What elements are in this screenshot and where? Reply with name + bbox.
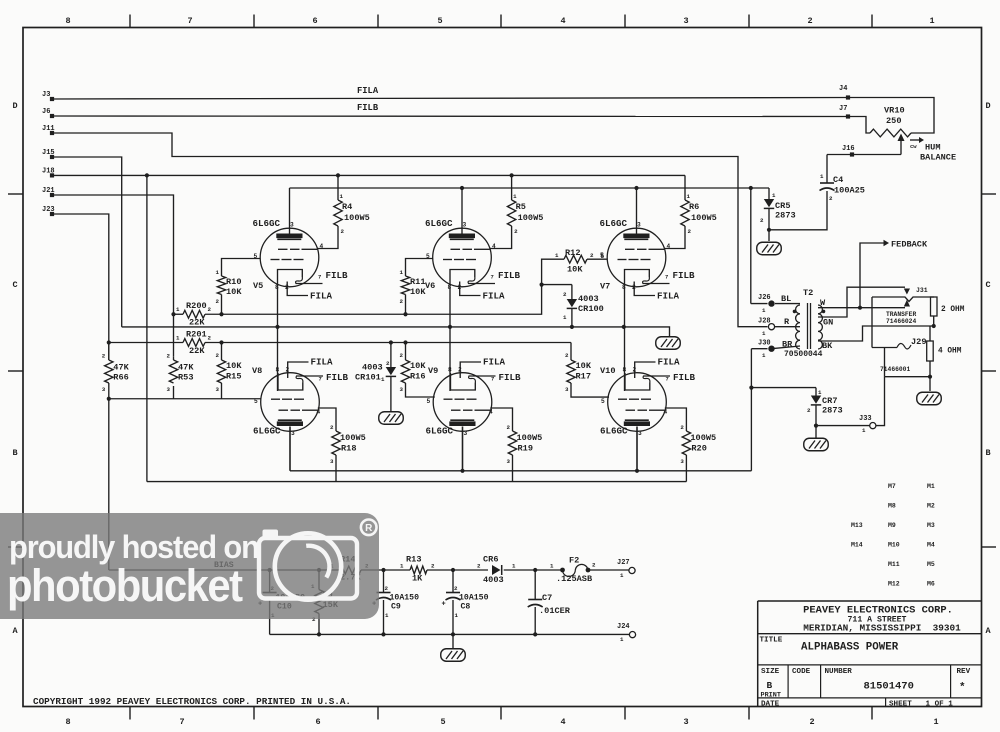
junction V10 plate	[635, 469, 639, 473]
resistor R12 10K	[587, 258, 608, 260]
capacitor C7 .01CER	[534, 570, 536, 600]
junction J18 bus / left drop	[145, 173, 149, 177]
svg-text:photobucket: photobucket	[7, 562, 243, 612]
wire V6-V9 cathode link	[449, 287, 451, 391]
wire J15 down to cathode bus	[52, 157, 122, 327]
resistor R10 10K	[222, 259, 261, 277]
resistor R11 10K	[406, 259, 434, 277]
junction R5 top	[510, 173, 514, 177]
wire to J33 branch	[885, 376, 931, 378]
ground below CR101	[379, 412, 404, 425]
junction J26 feed	[749, 186, 753, 190]
wire BL	[775, 303, 800, 305]
resistor R201 22K	[183, 339, 205, 347]
resistor 2 OHM load	[931, 297, 938, 316]
tube V10 6L6GC	[608, 373, 667, 432]
tube V5 6L6GC	[260, 228, 319, 287]
junction V6/V9 cathodes	[448, 325, 452, 329]
junction R12/CR100 node	[540, 283, 544, 287]
capacitor C9 10A150	[383, 570, 385, 593]
wire to ground	[768, 230, 770, 241]
resistor R13 1K	[410, 566, 427, 574]
tube V8 6L6GC	[261, 373, 320, 432]
resistor R14 2.7K	[340, 566, 361, 574]
junction R11 bottom	[403, 312, 407, 316]
diode CR5 2873	[768, 188, 770, 199]
wire V7-V10 cathode link	[624, 287, 626, 391]
wire R16 to V9 grid	[406, 383, 435, 397]
wire J16 to wiper	[827, 154, 901, 156]
ground cathode bus	[656, 337, 681, 350]
wire R center tap	[775, 326, 800, 328]
junction R10 bottom	[219, 312, 223, 316]
wire BK	[818, 326, 934, 341]
diode CR7 2873	[815, 388, 817, 396]
wire J23 down to R66	[52, 214, 109, 360]
wire V9 plate drop	[462, 427, 464, 471]
resistor R200 22K	[183, 310, 205, 318]
resistor R53 47K	[173, 357, 175, 360]
svg-text:proudly hosted on: proudly hosted on	[9, 528, 259, 565]
resistor R9 15K	[318, 570, 320, 590]
frame tick marks top/bottom	[129, 15, 131, 28]
resistor R18 100W5	[318, 408, 336, 431]
junction CR7 tap	[749, 386, 753, 390]
junction R4 top	[336, 173, 340, 177]
wire R17 to V10 grid	[571, 383, 609, 397]
wire bottom screen bus	[147, 481, 687, 483]
potentiometer VR10 250 hum balance	[848, 98, 934, 134]
wire cathode bus (J15)	[122, 327, 670, 337]
wire J21 down to R53	[52, 195, 174, 357]
wire GN tap	[818, 287, 905, 317]
ground below CR7	[804, 438, 829, 451]
resistor R15 10K	[221, 343, 223, 361]
wire V5-V8 cathode link	[277, 287, 279, 391]
transfer link	[872, 297, 934, 302]
resistor R5 100W5	[511, 175, 513, 200]
wire V6 plate drop	[461, 188, 463, 234]
wire V5 plate drop	[289, 188, 291, 234]
tube V7 6L6GC	[607, 228, 666, 287]
resistor R4 100W5	[337, 175, 339, 200]
title block	[758, 600, 982, 602]
junction V5/V8 cathodes	[275, 325, 279, 329]
ground below C8	[452, 634, 454, 648]
wire to ground	[929, 377, 931, 391]
wire W to fedback/transfer	[818, 307, 905, 309]
wire BIAS line	[109, 569, 340, 571]
resistor R16 10K	[405, 343, 407, 361]
frame side ticks	[8, 193, 23, 195]
resistor 4 OHM load	[929, 326, 931, 341]
resistor R19 100W5	[490, 408, 512, 431]
junction feedback tap	[858, 306, 862, 310]
junction V7 plate	[634, 186, 638, 190]
wire FILA bus J3 to J4	[52, 98, 848, 100]
tube V9 6L6GC	[433, 373, 492, 432]
junction C10	[268, 568, 272, 572]
wire plate supply bus (top tubes)	[290, 187, 770, 189]
junction V6 plate	[460, 186, 464, 190]
junction CR7 bottom	[814, 424, 818, 428]
junction CR5/C4/ground	[767, 228, 771, 232]
junction CR101 top	[389, 340, 393, 344]
wire to CR100	[542, 284, 572, 286]
wire FILB bus J6 to J7	[52, 115, 848, 118]
wire to CR7	[751, 387, 816, 389]
phase dot primary	[793, 310, 797, 314]
junction R9	[317, 568, 321, 572]
junction V9 plate	[460, 469, 464, 473]
resistor R66 47K	[108, 343, 110, 361]
connector J33	[816, 425, 870, 427]
diode CR6 4003	[492, 565, 501, 575]
wire J11 to J28 center tap	[52, 133, 768, 327]
wire V8 plate drop	[289, 427, 291, 471]
junction CR100 return	[570, 325, 574, 329]
wire BR	[772, 346, 801, 349]
registered trademark symbol	[361, 520, 377, 536]
photobucket camera icon	[259, 533, 357, 599]
wire V7 plate drop	[636, 188, 638, 234]
resistor R6 100W5	[684, 175, 686, 200]
junction J21/R200	[171, 312, 175, 316]
wire screen supply drop	[146, 175, 148, 481]
wire bias feed down	[108, 399, 110, 570]
feedback arrow	[860, 243, 884, 308]
junction 2ohm/4ohm	[932, 324, 936, 328]
wire to ground	[815, 426, 817, 438]
diode CR101 4003	[390, 343, 392, 368]
capacitor C8 10A150	[452, 570, 454, 593]
junction R16 top	[403, 340, 407, 344]
junction C8	[451, 568, 455, 572]
junction C7	[533, 568, 537, 572]
wire bottom return bus	[270, 633, 629, 635]
transformer core	[807, 303, 809, 349]
capacitor C4 100A25	[769, 191, 827, 230]
junction grid line / bias drop	[107, 397, 111, 401]
fuse F2 .125ASB	[560, 568, 565, 573]
diode CR100 4003	[567, 299, 577, 307]
junction 4ohm bottom	[928, 375, 932, 379]
wire J30 down to bottom plate bus	[750, 349, 752, 471]
connector J29 transfer plug	[871, 297, 873, 348]
wire R53 bottom to grid line	[173, 386, 175, 399]
svg-text:R: R	[365, 523, 373, 534]
ground below 4 OHM	[917, 392, 942, 405]
capacitor C10 10A150	[269, 570, 271, 593]
wire V10 plate drop	[636, 427, 638, 471]
junction R15 top	[219, 340, 223, 344]
wire V8 grid line	[109, 398, 261, 400]
ground below CR5	[757, 242, 782, 255]
resistor R20 100W5	[665, 408, 687, 431]
photobucket watermark banner	[0, 513, 379, 619]
resistor R17 10K	[570, 343, 572, 361]
wire J18 screen supply bus	[52, 174, 685, 176]
wire plate bus (bottom tubes)	[290, 470, 751, 472]
junction J23/R201	[107, 340, 111, 344]
junction C9	[381, 568, 385, 572]
junction V7/V10 cathodes	[622, 325, 626, 329]
tube V6 6L6GC	[433, 228, 492, 287]
phase dot secondary	[822, 310, 826, 314]
